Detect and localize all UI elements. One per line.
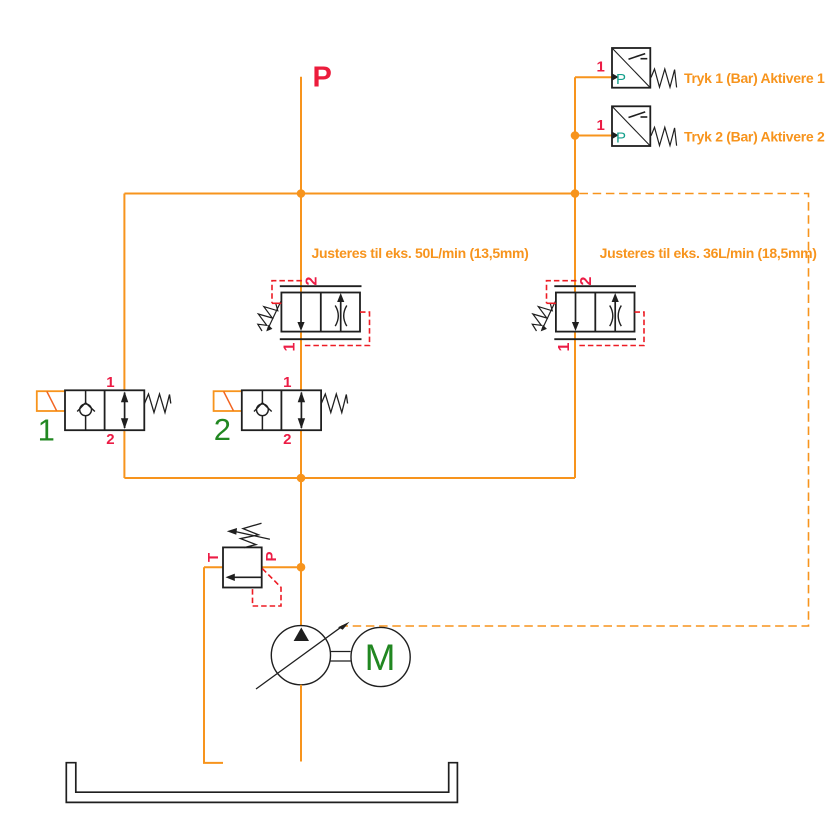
- svg-text:1: 1: [38, 412, 55, 447]
- V2 check valve ball: [257, 404, 269, 416]
- V1 check valve stem top: [85, 390, 87, 402]
- FC1 pilot line left (from port 2): [272, 281, 302, 304]
- switch 1 contact lever: [629, 54, 646, 60]
- V1 flow arrow line: [124, 393, 126, 429]
- svg-text:Justeres til eks. 36L/min (18,: Justeres til eks. 36L/min (18,5mm): [600, 245, 817, 261]
- FC2 pilot line left (from port 2): [547, 281, 577, 304]
- FC1 divider: [320, 293, 322, 332]
- V1 spring: [145, 394, 171, 413]
- V2 check valve stem top: [261, 390, 263, 402]
- FC2 pilot line right (from port 1): [576, 312, 644, 345]
- V2 flow arrow line: [300, 393, 302, 429]
- svg-text:1: 1: [283, 374, 291, 391]
- FC2 adjust arrow: [544, 302, 556, 327]
- V2 spring: [321, 394, 347, 413]
- V2 solenoid: [214, 391, 243, 411]
- V2 solenoid slash: [224, 391, 234, 410]
- junction dot at relief valve tap: [297, 563, 306, 572]
- pressure switch B2: [575, 106, 825, 146]
- switch 2 body: [612, 106, 650, 146]
- FC1 adjust arrow: [269, 302, 281, 327]
- switch 2 fixed contact: [641, 116, 648, 118]
- switch 2 spring: [651, 127, 677, 145]
- V2 flow arrowhead down: [298, 418, 305, 429]
- pressure switch B1: [575, 48, 825, 88]
- switch 1 body: [612, 48, 650, 88]
- FC2 left chamber flow arrow (down): [575, 293, 577, 324]
- FC1 pilot connector: [272, 302, 281, 304]
- svg-text:P: P: [616, 129, 626, 146]
- wire: dashed load-sensing line: [342, 194, 809, 627]
- pump circle: [271, 626, 330, 685]
- svg-text:2: 2: [106, 431, 114, 448]
- svg-text:1: 1: [556, 343, 573, 352]
- junction dot at top bus / right branch: [571, 189, 580, 198]
- V1 solenoid slash: [47, 391, 57, 410]
- wire: bottom horizontal bus: [124, 477, 575, 479]
- svg-text:T: T: [205, 553, 222, 562]
- FC2 throttle arcs: [610, 306, 613, 327]
- switch 2 port arrow: [613, 132, 619, 139]
- FC1 pilot line right (from port 1): [302, 312, 370, 345]
- solenoid valve V1: [37, 374, 171, 448]
- svg-text:2: 2: [578, 277, 595, 286]
- FC1 body: [281, 293, 360, 332]
- pump variable arrow: [256, 627, 342, 689]
- FC1 top rail: [280, 285, 362, 287]
- flow control valve FC1: [258, 277, 370, 352]
- switch 1 port arrow: [613, 74, 619, 81]
- svg-text:M: M: [365, 637, 396, 678]
- RV adjust arrow: [235, 532, 270, 540]
- junction dot at bottom bus / main line: [297, 474, 306, 483]
- wire to switch 1: [575, 76, 612, 78]
- FC1 throttle arcs: [335, 306, 338, 327]
- V1 body: [65, 390, 144, 430]
- wire: right branch vertical: [574, 77, 576, 478]
- svg-text:2: 2: [283, 431, 291, 448]
- svg-text:1: 1: [597, 59, 605, 76]
- RV right port wire: [262, 566, 301, 568]
- relief valve RV: [204, 523, 301, 763]
- FC2 body: [556, 293, 635, 332]
- RV tank return wire: [204, 567, 223, 763]
- FC1 bottom rail: [280, 338, 362, 340]
- svg-text:1: 1: [106, 374, 114, 391]
- V2 check valve seat: [254, 403, 272, 412]
- pump unit: [256, 622, 410, 762]
- V1 flow arrowhead up: [121, 392, 128, 403]
- flow control valve FC2: [532, 277, 644, 352]
- svg-text:Tryk 1 (Bar) Aktivere 1: Tryk 1 (Bar) Aktivere 1: [684, 70, 825, 86]
- svg-text:P: P: [616, 71, 626, 88]
- RV pilot line: [253, 569, 282, 606]
- junction dot at top bus / main line: [297, 189, 306, 198]
- FC2 top rail: [554, 285, 636, 287]
- shaft lines: [330, 651, 350, 653]
- switch 2 diagonal: [612, 106, 650, 146]
- svg-text:2: 2: [214, 412, 231, 447]
- svg-text:P: P: [313, 61, 332, 93]
- RV body: [223, 547, 262, 587]
- V1 check valve stem bottom: [85, 416, 87, 431]
- FC2 pilot connector: [547, 302, 556, 304]
- RV internal arrow: [233, 576, 261, 578]
- V2 divider: [280, 390, 282, 430]
- FC2 divider: [594, 293, 596, 332]
- FC2 right chamber flow arrow (up): [614, 301, 616, 332]
- svg-text:2: 2: [304, 277, 321, 286]
- wire: main pressure line P (vertical): [300, 77, 302, 626]
- FC2 bottom rail: [554, 338, 636, 340]
- V1 solenoid: [37, 391, 66, 411]
- RV spring: [241, 523, 262, 547]
- wire to switch 2: [575, 135, 612, 137]
- svg-text:Tryk 2 (Bar) Aktivere 2: Tryk 2 (Bar) Aktivere 2: [684, 128, 825, 144]
- motor circle: [351, 627, 410, 686]
- FC1 left chamber flow arrow (down): [300, 293, 302, 324]
- V1 flow arrowhead down: [121, 418, 128, 429]
- svg-text:1: 1: [597, 117, 605, 134]
- V1 divider: [104, 390, 106, 430]
- svg-text:P: P: [263, 551, 280, 561]
- wire: left branch vertical: [123, 194, 125, 479]
- svg-text:1: 1: [282, 343, 299, 352]
- FC1 right chamber flow arrow (up): [340, 301, 342, 332]
- junction dot at pressure switch 2 tap: [571, 131, 580, 140]
- FC1 spring: [258, 304, 278, 331]
- svg-text:Justeres til eks. 50L/min (13,: Justeres til eks. 50L/min (13,5mm): [312, 245, 529, 261]
- solenoid valve V2: [214, 374, 348, 448]
- switch 1 spring: [651, 69, 677, 87]
- V2 check valve stem bottom: [261, 416, 263, 431]
- wire: top horizontal bus: [124, 193, 575, 195]
- FC2 spring: [532, 304, 552, 331]
- V2 body: [242, 390, 321, 430]
- V1 check valve ball: [80, 404, 92, 416]
- switch 2 contact lever: [629, 112, 646, 118]
- switch 1 diagonal: [612, 48, 650, 88]
- switch 1 fixed contact: [641, 58, 648, 60]
- V2 flow arrowhead up: [298, 392, 305, 403]
- RV left port wire: [204, 566, 223, 568]
- V1 check valve seat: [77, 403, 95, 412]
- pump triangle: [294, 628, 309, 642]
- tank: [66, 763, 457, 803]
- pump suction wire: [300, 685, 302, 762]
